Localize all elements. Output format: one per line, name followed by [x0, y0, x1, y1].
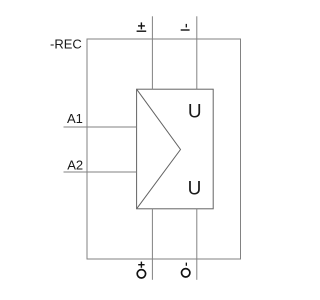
terminal mark + (top, underlined plus)	[137, 22, 147, 31]
svg-text:U: U	[188, 102, 202, 123]
svg-text:A2: A2	[67, 157, 83, 172]
wire bottom output - (vertical)	[196, 209, 198, 280]
wire input A1 (horizontal)	[64, 126, 137, 128]
inner converter box U1	[137, 89, 214, 209]
wire bottom output + (vertical)	[151, 209, 153, 280]
wire top supply - (vertical)	[196, 16, 198, 89]
svg-text:U: U	[188, 179, 202, 200]
converter triangle symbol	[137, 89, 181, 209]
wire top supply + (vertical)	[151, 16, 153, 89]
terminal circle + (bottom output)	[137, 262, 145, 278]
wire input A2 (horizontal)	[64, 171, 137, 173]
outer enclosure box	[87, 39, 241, 259]
svg-text:-REC: -REC	[50, 36, 82, 51]
terminal mark - (top, underlined tick)	[181, 24, 190, 30]
svg-text:A1: A1	[67, 111, 83, 126]
terminal circle - (bottom output)	[182, 263, 190, 277]
